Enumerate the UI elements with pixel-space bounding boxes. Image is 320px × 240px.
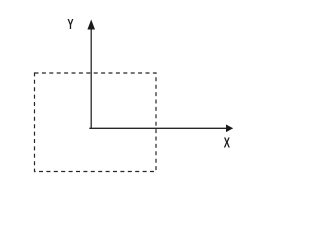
svg-text:Y: Y xyxy=(67,16,74,33)
X axis arrowhead xyxy=(226,125,233,133)
Y axis arrowhead xyxy=(87,20,95,30)
svg-text:X: X xyxy=(224,134,231,151)
Y axis xyxy=(90,29,92,129)
dashed rectangle xyxy=(35,73,157,172)
X axis xyxy=(89,127,227,129)
